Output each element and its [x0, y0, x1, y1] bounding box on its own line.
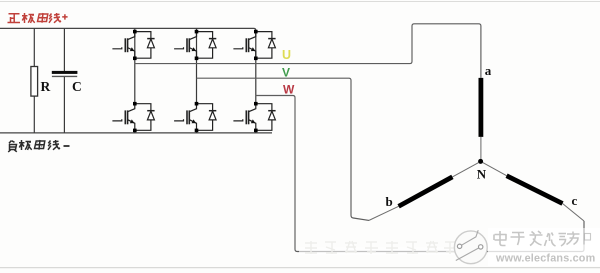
svg-text:N: N: [477, 166, 487, 181]
svg-text:W: W: [283, 83, 295, 97]
svg-text:R: R: [41, 79, 51, 94]
svg-text:C: C: [72, 79, 82, 94]
svg-text:c: c: [572, 193, 578, 208]
svg-text:V: V: [282, 65, 290, 79]
svg-text:U: U: [282, 48, 291, 62]
svg-text:a: a: [485, 63, 492, 78]
svg-text:b: b: [386, 194, 393, 209]
svg-text:www.elecfans.com: www.elecfans.com: [495, 253, 595, 265]
